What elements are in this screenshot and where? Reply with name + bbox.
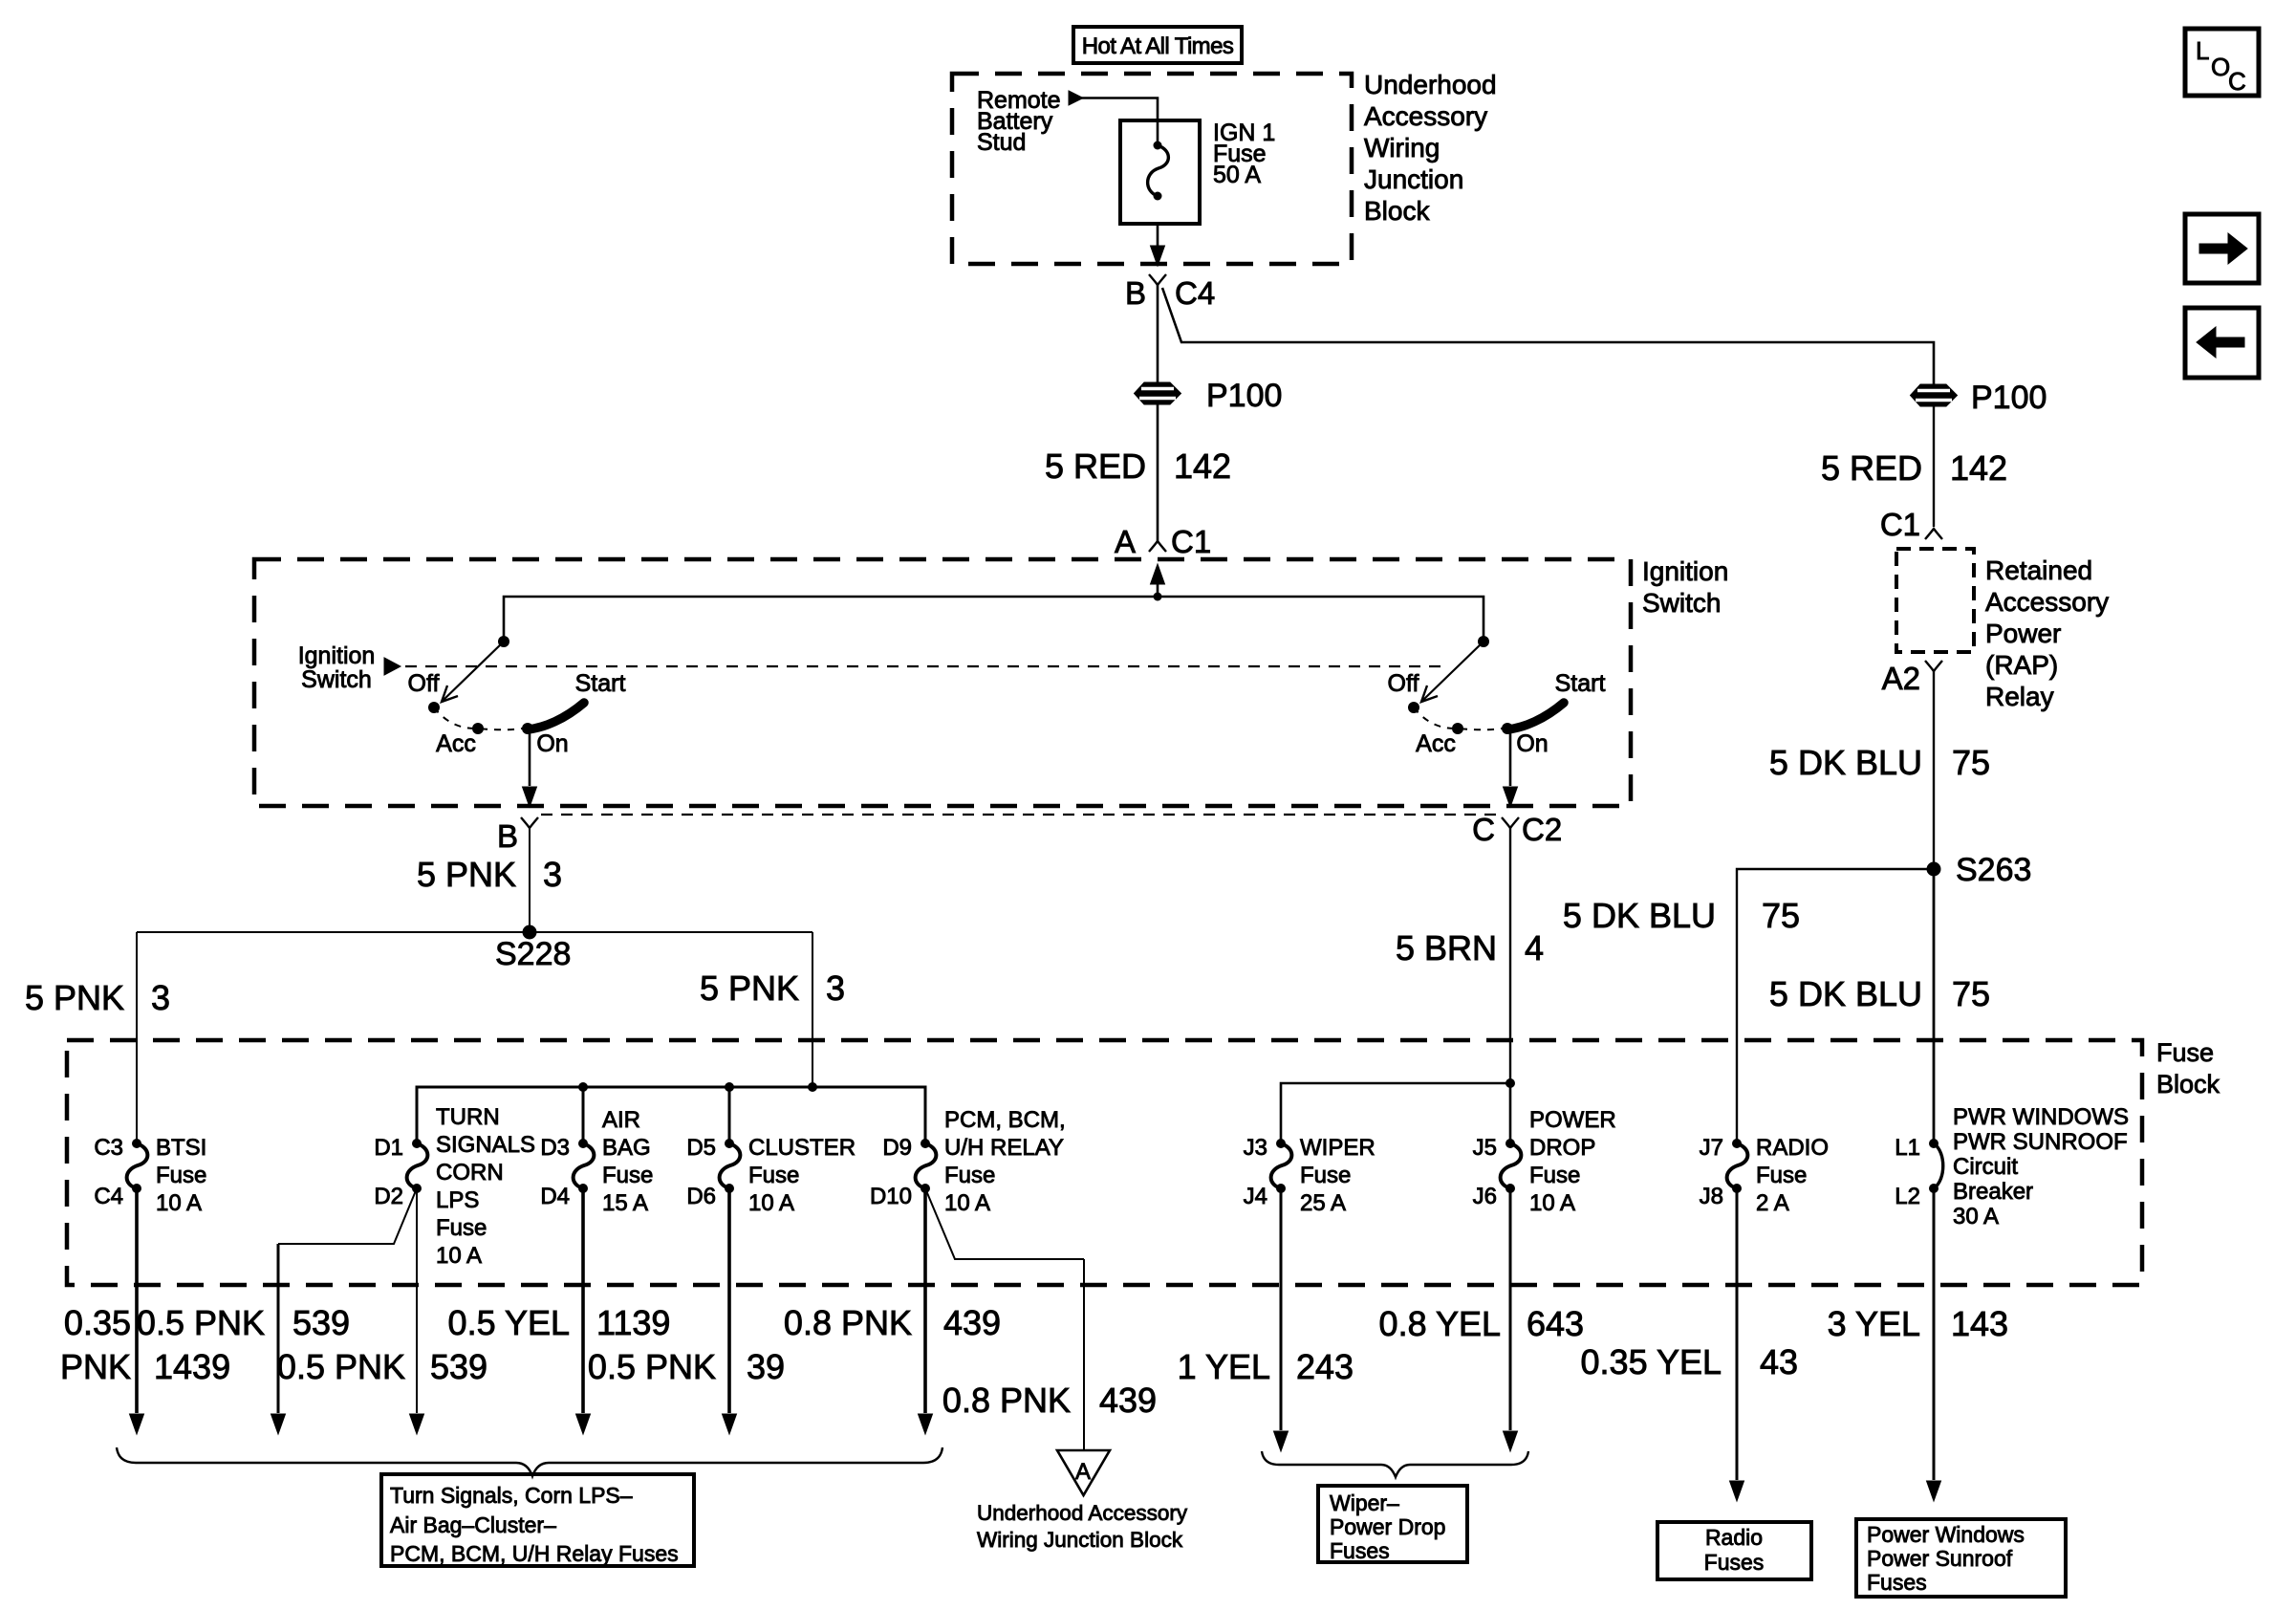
svg-text:On: On [536,730,568,757]
svg-text:5 RED: 5 RED [1045,446,1146,486]
connector C / C2 [1502,817,1519,828]
fuse CLUSTER (10 A) pins D5/D6 [725,1139,734,1148]
svg-text:L1: L1 [1895,1135,1920,1161]
svg-text:Junction: Junction [1364,164,1463,194]
svg-text:Air Bag–Cluster–: Air Bag–Cluster– [390,1512,556,1537]
svg-text:L: L [2196,36,2209,65]
Underhood Accessory Wiring Junction Block (dashed box) [952,74,1352,264]
svg-text:C: C [1472,812,1495,847]
svg-text:C2: C2 [1522,812,1562,847]
ignition switch left pole (IGN): Acc contact [472,723,484,734]
svg-text:5 PNK: 5 PNK [700,968,799,1008]
ignition switch left pole (IGN): On contact [522,723,533,734]
svg-text:D3: D3 [540,1135,570,1161]
svg-text:1139: 1139 [596,1303,670,1342]
box Radio Fuses [1657,1522,1811,1579]
connector A2 [1925,661,1942,671]
svg-text:5 DK BLU: 5 DK BLU [1563,896,1716,935]
svg-text:0.8 PNK: 0.8 PNK [942,1381,1071,1420]
svg-text:30 A: 30 A [1953,1204,1999,1229]
svg-text:DROP: DROP [1529,1135,1595,1161]
svg-text:S263: S263 [1956,852,2031,888]
svg-text:Start: Start [1555,670,1606,697]
connector C2 boundary (thin dashed) [541,814,1497,816]
svg-text:439: 439 [943,1303,1001,1342]
wire: C4 branch to right side P100 [1162,288,1934,384]
ignition switch right pole (ACC): dashed detent arc Off-Acc-On [1414,707,1507,729]
svg-text:539: 539 [430,1347,487,1386]
svg-text:POWER: POWER [1529,1107,1616,1133]
svg-text:1 YEL: 1 YEL [1178,1347,1270,1386]
svg-text:J6: J6 [1473,1184,1497,1209]
svg-text:Accessory: Accessory [1985,587,2109,617]
wire: battery stud to IGN 1 fuse [1081,98,1158,121]
wire J8 output 0.35 YEL 43 [1736,1188,1739,1480]
wire: IGN 1 fuse to connector C4 [1157,224,1159,247]
svg-text:Switch: Switch [301,666,372,693]
svg-text:PNK: PNK [60,1347,131,1386]
svg-text:CLUSTER: CLUSTER [748,1135,856,1161]
svg-text:75: 75 [1762,896,1800,935]
svg-text:P100: P100 [1971,380,2047,416]
wire: fuse block left bus [417,1087,925,1143]
svg-text:Fuses: Fuses [1867,1570,1927,1595]
svg-text:Ignition: Ignition [298,642,376,669]
svg-text:0.5 PNK: 0.5 PNK [588,1347,716,1386]
ignition switch right pole (ACC): On contact [1502,723,1513,734]
triangle connector A (Underhood Accessory Wiring Junction Block) [1057,1450,1110,1495]
Hot At All Times label box [1073,27,1242,63]
svg-text:5 DK BLU: 5 DK BLU [1769,743,1922,782]
svg-text:Power Drop: Power Drop [1330,1514,1445,1539]
svg-text:75: 75 [1952,743,1990,782]
ignition switch left pole (IGN): dashed detent arc Off-Acc-On [434,707,528,729]
svg-text:Fuse: Fuse [156,1163,206,1188]
wire label 5 PNK 3 (B to S228) [529,828,531,932]
svg-text:TURN: TURN [436,1104,500,1130]
svg-text:Fuse: Fuse [436,1215,487,1241]
svg-text:0.35: 0.35 [64,1303,131,1342]
svg-text:CORN: CORN [436,1160,504,1186]
wire D6 output 0.5 PNK 39 [727,1188,731,1413]
ignition switch right pole (ACC): rotor contact arc On-Start [1507,703,1564,729]
wire: fuse block right feed (J3/J5) [1281,1083,1510,1143]
svg-text:AIR: AIR [602,1107,640,1133]
Ignition Switch (dashed box) [254,559,1631,806]
splice P100 (right) [1911,384,1958,406]
svg-text:J7: J7 [1700,1135,1723,1161]
svg-text:D1: D1 [374,1135,403,1161]
prev-page arrow icon (left) [2185,308,2259,378]
wire: C4 down to P100 [1157,285,1159,382]
Fuse Block (dashed box) [67,1040,2142,1285]
svg-text:D4: D4 [540,1184,570,1209]
svg-text:BTSI: BTSI [156,1135,206,1161]
svg-text:Power: Power [1985,619,2061,648]
fuse TURN SIGNALS CORN LPS (10 A) pins D1/D2 [412,1139,422,1148]
svg-text:Wiring: Wiring [1364,133,1440,163]
svg-text:3: 3 [826,968,845,1008]
wire J4 output 1 YEL 243 [1280,1188,1283,1430]
wire label 5 DK BLU 75 (A2 to S263) [1933,671,1935,869]
svg-text:PCM, BCM,: PCM, BCM, [944,1107,1066,1133]
svg-text:Acc: Acc [1416,730,1456,757]
svg-text:LPS: LPS [436,1187,479,1213]
mechanical link dashed line [405,665,1445,667]
svg-text:5 RED: 5 RED [1821,448,1922,488]
svg-text:C4: C4 [94,1184,123,1209]
svg-text:142: 142 [1950,448,2007,488]
svg-text:Turn Signals, Corn LPS–: Turn Signals, Corn LPS– [390,1483,633,1508]
fuse AIR BAG (15 A) pins D3/D4 [578,1139,588,1148]
svg-text:0.5 PNK: 0.5 PNK [137,1303,265,1342]
svg-text:Wiring Junction Block: Wiring Junction Block [977,1528,1183,1552]
wire D2 branch to 0.5 PNK 539 (left) [278,1188,417,1244]
svg-text:A: A [1115,524,1136,559]
wire: S228 left leg down to fuse C3 [136,932,138,1143]
svg-text:Fuse: Fuse [2156,1038,2214,1067]
svg-text:Power Windows: Power Windows [1867,1522,2025,1547]
svg-text:D5: D5 [686,1135,716,1161]
svg-text:539: 539 [292,1303,350,1342]
fuse POWER DROP (10 A) pins J5/J6 [1505,1139,1515,1148]
fuse PCM BCM U/H RELAY (10 A) pins D9/D10 [921,1139,930,1148]
svg-text:Off: Off [408,670,440,697]
splice S228 [523,925,537,940]
svg-text:U/H RELAY: U/H RELAY [944,1135,1064,1161]
svg-text:J8: J8 [1700,1184,1723,1209]
ignition switch right pole (ACC): Off contact [1408,702,1419,713]
svg-text:SIGNALS: SIGNALS [436,1132,535,1158]
svg-text:RADIO: RADIO [1756,1135,1829,1161]
svg-text:Fuses: Fuses [1330,1538,1390,1563]
svg-text:D9: D9 [882,1135,912,1161]
ignition switch left pole (IGN): pivot [498,636,509,647]
svg-text:(RAP): (RAP) [1985,650,2058,680]
svg-text:75: 75 [1952,974,1990,1013]
wire: ignition switch internal bus [504,597,1484,642]
svg-text:A: A [1075,1459,1091,1485]
wire D4 output 0.5 YEL 1139 [581,1188,585,1413]
svg-text:BAG: BAG [602,1135,651,1161]
wire label 5 RED 142 (left) [1157,404,1159,541]
circuit breaker PWR WINDOWS PWR SUNROOF 30 A, pins L1/L2 [1929,1139,1939,1148]
svg-text:Retained: Retained [1985,555,2092,585]
connector B [521,817,538,828]
svg-text:43: 43 [1760,1342,1798,1382]
svg-text:0.8 YEL: 0.8 YEL [1379,1304,1501,1343]
wire: On (left) down to connector B [529,729,531,786]
svg-text:S228: S228 [495,936,571,972]
svg-text:Underhood Accessory: Underhood Accessory [977,1501,1188,1525]
wire + up arrow into connector A/C1 [1157,577,1159,597]
svg-text:10 A: 10 A [748,1190,794,1216]
svg-text:L2: L2 [1895,1184,1920,1209]
svg-text:Radio: Radio [1705,1525,1763,1550]
svg-text:Wiper–: Wiper– [1330,1490,1399,1515]
svg-text:5 DK BLU: 5 DK BLU [1769,974,1922,1013]
wire D2 output 0.5 PNK 539 [416,1188,418,1413]
svg-text:Start: Start [575,670,626,697]
svg-text:D6: D6 [686,1184,716,1209]
svg-text:3 YEL: 3 YEL [1828,1304,1920,1343]
brace (wiper / power drop group) [1262,1451,1528,1477]
ignition switch left pole (IGN): wiper arrow to Off [444,642,504,700]
svg-text:3: 3 [151,978,170,1017]
ignition switch right pole (ACC): Acc contact [1452,723,1463,734]
svg-text:439: 439 [1099,1381,1157,1420]
svg-text:Fuse: Fuse [602,1163,653,1188]
svg-text:10 A: 10 A [1529,1190,1575,1216]
svg-text:PWR WINDOWS: PWR WINDOWS [1953,1104,2129,1130]
svg-text:143: 143 [1951,1304,2008,1343]
wire: S228 right leg down to fuse bus [812,932,813,1087]
LOC icon box [2185,29,2259,96]
svg-text:Accessory: Accessory [1364,101,1487,131]
wire C4 output 0.35 PNK 1439 [135,1188,139,1413]
ignition switch left pole (IGN): Off contact [428,702,440,713]
Remote Battery Stud arrow [1069,91,1083,105]
fuse BTSI (10 A) pins C3/C4 [132,1139,141,1148]
svg-text:15 A: 15 A [602,1190,648,1216]
svg-text:D10: D10 [870,1184,912,1209]
svg-text:Power Sunroof: Power Sunroof [1867,1546,2013,1571]
wire: On (right) down to connector C [1509,727,1512,786]
svg-text:C: C [2228,67,2246,96]
svg-text:2 A: 2 A [1756,1190,1789,1216]
svg-text:B: B [1125,275,1146,311]
svg-text:25 A: 25 A [1300,1190,1346,1216]
svg-text:Off: Off [1388,670,1419,697]
svg-text:Fuse: Fuse [1300,1163,1351,1188]
fuse RADIO (2 A) pins J7/J8 [1732,1139,1742,1148]
svg-text:10 A: 10 A [944,1190,990,1216]
svg-text:643: 643 [1527,1304,1584,1343]
svg-text:0.8 PNK: 0.8 PNK [784,1303,912,1342]
svg-text:On: On [1516,730,1548,757]
fuse WIPER (25 A) pins J3/J4 [1276,1139,1286,1148]
svg-text:Circuit: Circuit [1953,1154,2018,1180]
svg-text:5 PNK: 5 PNK [25,978,124,1017]
svg-text:J4: J4 [1244,1184,1267,1209]
splice S263 [1927,862,1941,877]
wire: S228 horizontal [137,931,812,933]
svg-text:Acc: Acc [436,730,476,757]
svg-text:C1: C1 [1880,507,1920,542]
svg-text:Breaker: Breaker [1953,1179,2033,1205]
svg-text:5 PNK: 5 PNK [417,855,516,894]
svg-text:10 A: 10 A [436,1243,482,1269]
splice P100 (left) [1135,382,1181,404]
box Wiper- Power Drop Fuses [1318,1486,1467,1562]
svg-text:C4: C4 [1175,275,1215,311]
connector B / C4 [1149,274,1166,285]
brace (turn signals fuse group) [117,1447,942,1476]
svg-text:0.5 PNK: 0.5 PNK [277,1347,405,1386]
box Turn Signals, Corn LPS- Air Bag-Cluster- PCM, BCM, U/H Relay Fuses [381,1474,694,1566]
svg-text:10 A: 10 A [156,1190,202,1216]
svg-text:A2: A2 [1882,661,1920,696]
svg-text:Underhood: Underhood [1364,70,1497,99]
svg-text:J3: J3 [1244,1135,1267,1161]
svg-text:C1: C1 [1171,524,1211,559]
svg-text:PWR SUNROOF: PWR SUNROOF [1953,1129,2128,1155]
svg-text:1439: 1439 [154,1347,230,1386]
wire L2 output 3 YEL 143 [1933,1188,1936,1480]
svg-text:142: 142 [1174,446,1231,486]
svg-text:Ignition: Ignition [1642,556,1728,586]
ignition switch right pole (ACC): pivot [1478,636,1489,647]
wire J6 output 0.8 YEL 643 [1509,1188,1512,1430]
svg-text:Stud: Stud [977,129,1026,156]
svg-text:Relay: Relay [1985,682,2054,711]
svg-text:D2: D2 [374,1184,403,1209]
wire label 5 RED 142 (right) [1933,406,1935,527]
svg-text:50 A: 50 A [1213,162,1261,188]
box Power Windows Power Sunroof Fuses [1856,1519,2066,1597]
ignition switch left pole (IGN): rotor contact arc On-Start [528,703,584,729]
wire label 5 DK BLU 75 (S263 to L1) [1933,869,1936,1143]
svg-text:243: 243 [1296,1347,1354,1386]
svg-text:39: 39 [747,1347,785,1386]
svg-text:Fuse: Fuse [1756,1163,1807,1188]
svg-text:P100: P100 [1206,378,1282,414]
svg-text:0.35 YEL: 0.35 YEL [1581,1342,1722,1382]
svg-text:Fuse: Fuse [944,1163,995,1188]
svg-text:Fuse: Fuse [748,1163,799,1188]
wire: S263 branch to J7 (radio fuse) [1737,869,1934,1143]
ignition switch right pole (ACC): wiper arrow to Off [1423,642,1484,700]
svg-text:3: 3 [543,855,562,894]
svg-text:PCM, BCM, U/H Relay Fuses: PCM, BCM, U/H Relay Fuses [390,1541,679,1566]
fuse IGN 1 50 A (box) [1120,120,1200,224]
svg-text:Hot At All Times: Hot At All Times [1082,33,1234,59]
svg-text:Fuses: Fuses [1704,1550,1765,1575]
svg-text:C3: C3 [94,1135,123,1161]
svg-text:WIPER: WIPER [1300,1135,1375,1161]
Retained Accessory Power (RAP) Relay (dashed box) [1896,549,1974,652]
svg-text:4: 4 [1525,928,1544,968]
svg-text:5 BRN: 5 BRN [1396,928,1497,968]
svg-text:Switch: Switch [1642,588,1721,618]
svg-text:Block: Block [2156,1070,2220,1099]
svg-text:B: B [497,818,518,854]
next-page arrow icon (right) [2185,214,2259,283]
wire label 5 BRN 4 (C to fuse block) [1509,828,1511,1083]
svg-text:0.5 YEL: 0.5 YEL [448,1303,570,1342]
svg-text:Fuse: Fuse [1529,1163,1580,1188]
wire D10 output 0.8 PNK 439 [923,1188,927,1413]
wire D10 branch 0.8 PNK 439 to junction block A [925,1188,1084,1259]
svg-text:J5: J5 [1473,1135,1497,1161]
svg-text:Block: Block [1364,196,1430,226]
